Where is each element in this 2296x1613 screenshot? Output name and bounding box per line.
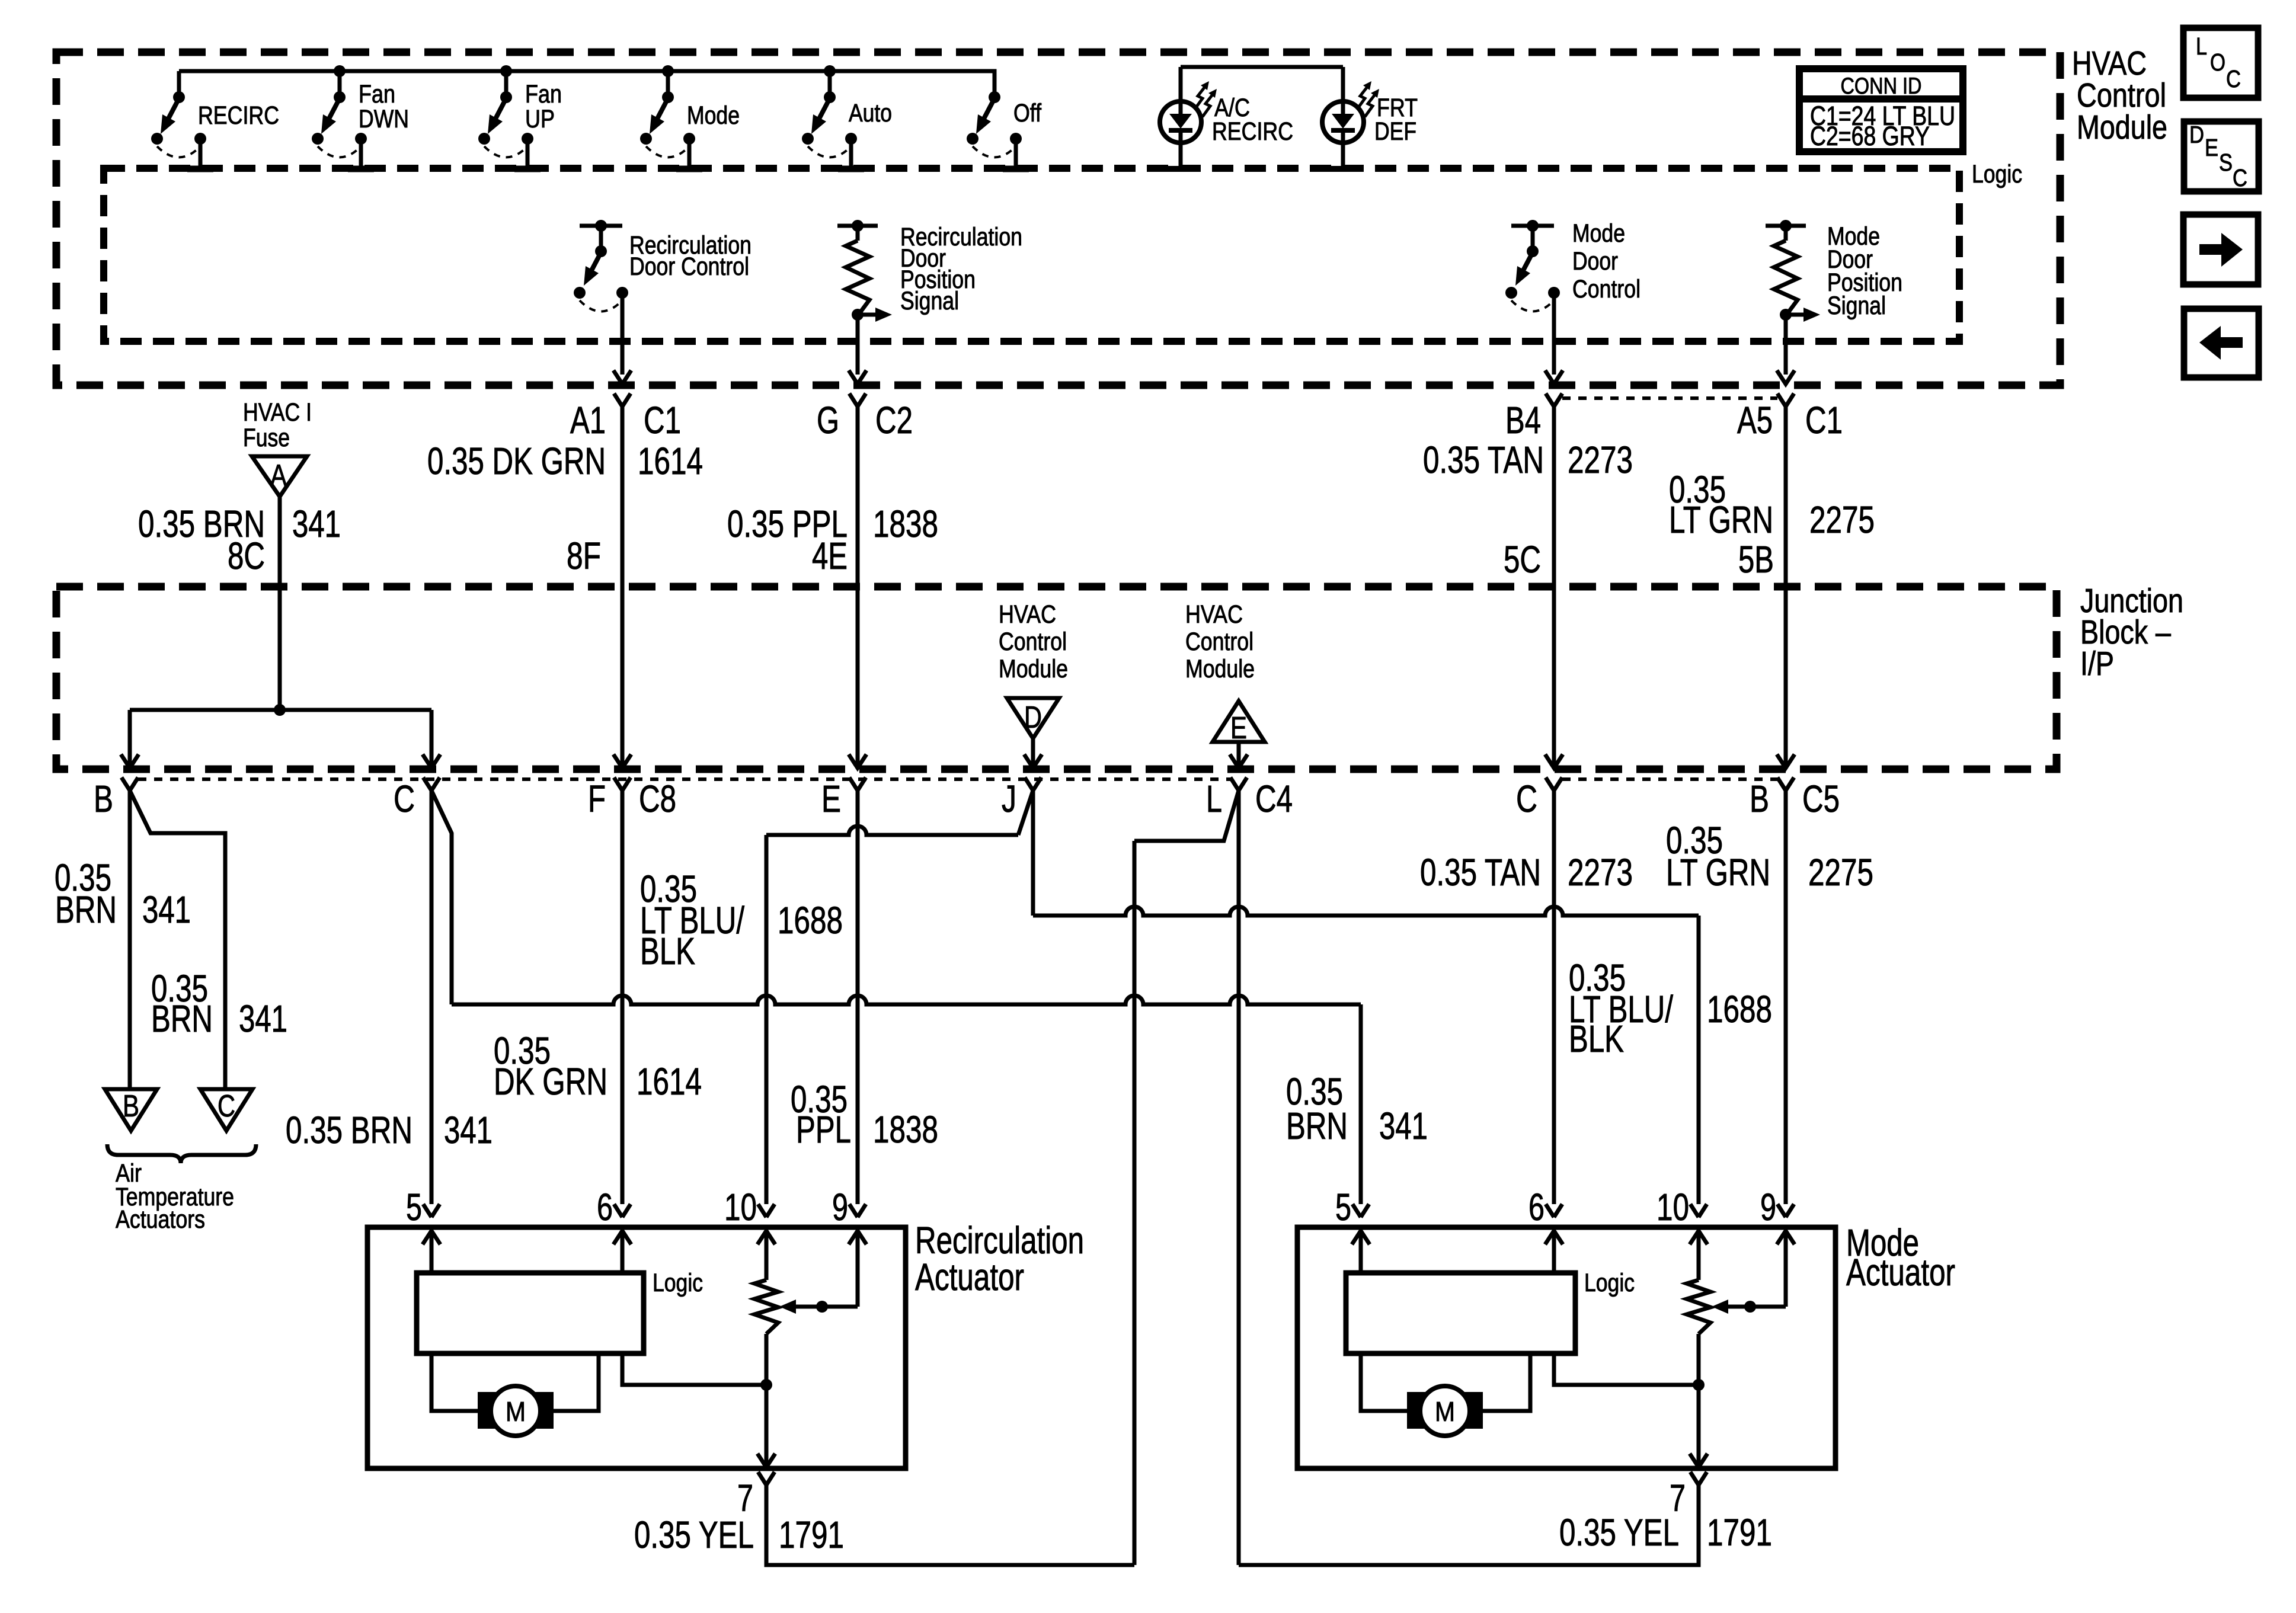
switch Mode Door Control [1505, 219, 1641, 384]
wire motor right [551, 1353, 599, 1411]
switch Fan UP [478, 71, 562, 169]
LOC box [2183, 28, 2258, 98]
svg-text:341: 341 [142, 888, 191, 931]
svg-text:DK GRN: DK GRN [494, 1060, 607, 1103]
wire pot to pin 7 [757, 1334, 775, 1467]
svg-text:1614: 1614 [637, 1060, 702, 1103]
svg-text:D: D [1024, 700, 1042, 735]
svg-text:1688: 1688 [1707, 988, 1772, 1030]
wire logic to pot junction [1554, 1353, 1699, 1385]
svg-text:E: E [2205, 134, 2218, 161]
svg-text:341: 341 [239, 997, 287, 1040]
svg-text:4E: 4E [812, 535, 848, 577]
HVAC Control Module label [2072, 44, 2167, 146]
svg-text:5: 5 [406, 1186, 422, 1228]
wire pin 6 to logic [1552, 1231, 1556, 1273]
label 0.35 BRN 341 pin5 [286, 1109, 493, 1151]
wire motor right [1480, 1353, 1530, 1411]
svg-text:I/P: I/P [2080, 645, 2114, 683]
logic box [417, 1273, 644, 1353]
wire 1688 horizontal left [766, 826, 1018, 835]
svg-text:DWN: DWN [359, 105, 409, 133]
svg-text:10: 10 [724, 1186, 757, 1228]
switch Recirculation Door Control [574, 220, 752, 384]
svg-text:1838: 1838 [873, 1108, 938, 1151]
HVAC Control Module ref D [999, 600, 1068, 768]
svg-text:BLK: BLK [640, 930, 695, 972]
svg-text:Logic: Logic [1972, 160, 2022, 188]
svg-text:C: C [2233, 164, 2247, 191]
connector B4 [1505, 393, 1562, 587]
connector E row2 [821, 777, 866, 820]
potentiometer [1687, 1280, 1710, 1334]
Mode Actuator box [1297, 1227, 1835, 1468]
svg-text:CONN ID: CONN ID [1841, 73, 1922, 99]
wire motor left [1361, 1353, 1409, 1411]
label 0.35 TAN 2273 lower [1420, 851, 1633, 894]
svg-text:2273: 2273 [1568, 851, 1633, 894]
connector dashed line B to L [138, 777, 1230, 781]
svg-text:1688: 1688 [778, 899, 843, 942]
resistor Recirculation Door Position [837, 220, 1022, 384]
svg-text:BRN: BRN [1286, 1105, 1348, 1147]
svg-text:S: S [2219, 149, 2233, 176]
wire BRN 341 horizontal to Mode pin 5 [452, 996, 1361, 1004]
svg-text:HVAC I: HVAC I [243, 398, 312, 427]
pin 7 [737, 1472, 775, 1519]
svg-text:LT GRN: LT GRN [1669, 498, 1773, 541]
connector B C5 row2 [1750, 777, 1840, 820]
wire fuse to junction block [278, 497, 282, 710]
svg-text:RECIRC: RECIRC [198, 101, 279, 130]
svg-text:C8: C8 [639, 777, 676, 820]
svg-text:1838: 1838 [873, 503, 938, 545]
connector G C2 [817, 393, 913, 587]
svg-text:0.35 TAN: 0.35 TAN [1420, 851, 1541, 894]
svg-text:1791: 1791 [779, 1513, 844, 1556]
wire down to Recirc pin 10 [765, 835, 769, 1204]
svg-text:341: 341 [444, 1109, 493, 1151]
svg-text:DEF: DEF [1374, 117, 1416, 146]
svg-text:C4: C4 [1255, 777, 1293, 820]
wire A5 to B through junction [1777, 587, 1795, 768]
Junction Block label [2080, 582, 2183, 683]
Logic dashed box [104, 168, 1959, 341]
wire pin 10 to potentiometer [765, 1231, 769, 1280]
svg-text:Fan: Fan [359, 80, 395, 108]
svg-text:L: L [2196, 33, 2207, 60]
wire A1 to F through junction [613, 587, 631, 768]
svg-text:A: A [270, 459, 287, 493]
svg-text:Control: Control [999, 628, 1067, 656]
svg-text:Door Control: Door Control [629, 252, 749, 281]
svg-text:Actuator: Actuator [1846, 1251, 1955, 1294]
svg-text:B: B [94, 777, 113, 820]
connector dashed line C to B [1562, 777, 1777, 781]
wire LED bracket [1181, 65, 1343, 69]
svg-text:10: 10 [1657, 1186, 1689, 1228]
pin 7 [1670, 1472, 1707, 1519]
svg-text:Door: Door [1572, 247, 1618, 276]
svg-text:9: 9 [832, 1186, 848, 1228]
junction Fan UP [500, 65, 512, 77]
wire to Off switch [830, 71, 994, 94]
junction Auto [824, 65, 836, 77]
LED FRT DEF [1322, 67, 1418, 169]
wire 0.35 YEL 1791 recirc [766, 1485, 1134, 1565]
fuse HVAC I [243, 398, 312, 497]
connector B row2 [94, 777, 138, 820]
svg-text:Logic: Logic [1584, 1269, 1635, 1297]
svg-text:BRN: BRN [55, 888, 117, 931]
svg-text:341: 341 [1379, 1105, 1428, 1147]
wire 1688 horizontal to Mode pin 10 [1033, 907, 1699, 916]
label 0.35 BRN 341 fuse [138, 503, 341, 577]
label 0.35 BRN 341 left2 [151, 967, 287, 1040]
connector A5 C1 [1737, 393, 1843, 587]
arrow left box [2184, 309, 2259, 377]
wire B to Mode pin 9 [1784, 791, 1788, 1204]
Junction Block I/P dashed box [56, 587, 2057, 769]
svg-text:C: C [394, 777, 415, 820]
wire down to Mode pin 10 [1697, 916, 1701, 1204]
svg-text:C1: C1 [644, 399, 681, 441]
connector A1 C1 [570, 393, 681, 587]
svg-text:O: O [2210, 49, 2225, 76]
label 0.35 PPL 1838 [727, 503, 938, 577]
svg-text:BLK: BLK [1569, 1017, 1624, 1060]
motor M [478, 1386, 554, 1436]
wire pin 9 to wiper [1712, 1231, 1786, 1314]
motor M [1407, 1386, 1483, 1436]
wire pin 6 to logic [621, 1231, 625, 1273]
svg-text:C2: C2 [875, 399, 913, 441]
svg-text:5B: 5B [1738, 538, 1774, 581]
wire 0.35 YEL 1791 mode [1239, 1485, 1699, 1565]
svg-text:HVAC: HVAC [1185, 600, 1243, 629]
svg-text:0.35 YEL: 0.35 YEL [1559, 1511, 1679, 1554]
junction Fan DWN [334, 65, 346, 77]
wire C to Mode pin 6 [1552, 791, 1556, 1204]
svg-text:Actuator: Actuator [915, 1256, 1024, 1298]
label 0.35 YEL 1791 recirc [634, 1513, 844, 1556]
DESC box [2184, 121, 2259, 191]
svg-text:8C: 8C [228, 535, 265, 577]
svg-text:C2=68 GRY: C2=68 GRY [1810, 121, 1930, 151]
label 0.35 DK GRN 1614 lower [494, 1029, 702, 1103]
arrow right box [2183, 215, 2258, 284]
svg-text:Mode: Mode [687, 101, 740, 130]
pin 5 [406, 1186, 440, 1244]
svg-text:0.35 TAN: 0.35 TAN [1423, 439, 1544, 481]
wire pin 5 to logic [430, 1231, 434, 1273]
wire J to Recirc pin 10 [1031, 791, 1035, 916]
svg-text:D: D [2189, 121, 2204, 148]
svg-text:2273: 2273 [1568, 439, 1633, 481]
triangle ref B Air Temperature [105, 1089, 157, 1131]
svg-text:Mode: Mode [1572, 219, 1625, 248]
svg-text:C5: C5 [1802, 777, 1840, 820]
potentiometer [754, 1280, 778, 1334]
resistor Mode Door Position [1766, 220, 1902, 384]
brace Air Temperature Actuators [107, 1144, 256, 1163]
svg-text:0.35 DK GRN: 0.35 DK GRN [427, 440, 606, 482]
connector C row2 [1516, 777, 1562, 820]
svg-text:C: C [2226, 65, 2241, 92]
HVAC Control Module dashed box [56, 52, 2060, 385]
svg-text:Module: Module [1185, 655, 1255, 683]
svg-text:B: B [1750, 777, 1769, 820]
switch Auto [802, 71, 892, 169]
connector L C4 row2 [1206, 777, 1293, 820]
label 0.35 BRN 341 mode pin5 [1286, 1070, 1428, 1147]
pin 10 [724, 1186, 775, 1244]
svg-text:Fuse: Fuse [243, 424, 290, 452]
LED A/C RECIRC [1160, 67, 1293, 169]
svg-text:Fan: Fan [525, 80, 562, 108]
svg-text:B: B [123, 1089, 139, 1124]
svg-text:341: 341 [292, 503, 341, 545]
pin 6 [1528, 1186, 1563, 1244]
svg-text:Actuators: Actuators [116, 1205, 205, 1234]
wire E to Recirc pin 9 [856, 791, 860, 1204]
wire diagonal to J [1018, 791, 1033, 835]
svg-text:LT GRN: LT GRN [1666, 851, 1770, 894]
wire C branch down [431, 791, 452, 1004]
switch Off [967, 71, 1042, 169]
svg-text:F: F [588, 777, 606, 820]
svg-text:5: 5 [1335, 1186, 1351, 1228]
pin 9 [1760, 1186, 1795, 1244]
CONN ID table [1799, 69, 1963, 152]
wire B branch to triangle C [130, 791, 225, 1089]
svg-text:UP: UP [525, 105, 555, 133]
svg-text:2275: 2275 [1808, 851, 1873, 894]
svg-text:E: E [821, 777, 841, 820]
svg-text:C: C [218, 1089, 235, 1124]
wire pin 10 to potentiometer [1697, 1231, 1701, 1280]
svg-text:B4: B4 [1505, 399, 1541, 441]
svg-text:A1: A1 [570, 399, 606, 441]
triangle ref C Air Temperature [200, 1089, 252, 1131]
svg-text:Logic: Logic [653, 1269, 703, 1297]
wire G to E through junction [849, 587, 866, 768]
svg-text:Module: Module [999, 655, 1068, 683]
connector dashed line B4 to A5 [1562, 396, 1777, 400]
wire fuse tee [121, 704, 440, 768]
svg-text:1614: 1614 [638, 440, 703, 482]
pin 9 [832, 1186, 866, 1244]
switch Mode [640, 71, 740, 169]
svg-text:C1: C1 [1805, 399, 1843, 441]
wire pin 9 to wiper [779, 1231, 858, 1314]
wire pin 5 to logic [1359, 1231, 1363, 1273]
svg-text:M: M [1435, 1396, 1455, 1427]
pin 10 [1657, 1186, 1707, 1244]
wire logic to pot junction [622, 1353, 766, 1385]
wire B4 to C through junction [1545, 587, 1563, 768]
label 0.35 LT BLU BLK 1688 left [640, 868, 843, 972]
label 0.35 LT GRN 2275 [1669, 468, 1875, 581]
label 0.35 LT BLU BLK 1688 right [1569, 956, 1772, 1060]
svg-text:Signal: Signal [1827, 292, 1886, 320]
pin 5 [1335, 1186, 1370, 1244]
wire F to Recirc pin 6 [621, 791, 625, 1204]
pin 6 [597, 1186, 631, 1244]
svg-text:Control: Control [1185, 628, 1253, 656]
svg-text:Signal: Signal [900, 287, 959, 315]
Air Temperature Actuators label [116, 1159, 234, 1234]
label 0.35 PPL 1838 lower [791, 1078, 938, 1151]
connector C row2 [394, 777, 440, 820]
svg-text:PPL: PPL [796, 1108, 851, 1151]
svg-text:C: C [1516, 777, 1537, 820]
connector F C8 row2 [588, 777, 676, 820]
Recirculation Actuator box [367, 1227, 906, 1468]
label 0.35 LT GRN 2275 lower [1666, 819, 1873, 894]
svg-text:Control: Control [1572, 275, 1641, 303]
svg-text:M: M [506, 1396, 526, 1427]
switch RECIRC [151, 71, 279, 169]
svg-text:Off: Off [1013, 99, 1042, 127]
svg-text:5C: 5C [1504, 538, 1541, 581]
svg-text:G: G [817, 399, 839, 441]
wire down to Mode pin 5 [1359, 1004, 1363, 1204]
svg-text:Module: Module [2077, 108, 2167, 146]
svg-text:0.35 YEL: 0.35 YEL [634, 1513, 754, 1556]
svg-text:6: 6 [1528, 1186, 1544, 1228]
svg-text:L: L [1206, 777, 1222, 820]
svg-text:E: E [1230, 711, 1247, 745]
label 0.35 BRN 341 left1 [55, 856, 191, 931]
connector J row2 [1002, 777, 1041, 820]
svg-text:8F: 8F [567, 535, 601, 577]
svg-text:BRN: BRN [151, 997, 213, 1040]
wire motor left [431, 1353, 480, 1411]
svg-text:HVAC: HVAC [999, 600, 1056, 629]
svg-text:9: 9 [1760, 1186, 1776, 1228]
HVAC Control Module ref E [1185, 600, 1265, 768]
svg-text:Auto: Auto [849, 99, 892, 127]
wire B to Air Temp triangle B [128, 791, 132, 1089]
svg-text:1791: 1791 [1707, 1511, 1772, 1554]
label 0.35 DK GRN 1614 [427, 440, 703, 577]
svg-text:J: J [1002, 777, 1016, 820]
svg-text:A5: A5 [1737, 399, 1773, 441]
svg-text:6: 6 [597, 1186, 613, 1228]
wire L to yellow wires [1134, 791, 1239, 1565]
junction Mode [662, 65, 674, 77]
label 0.35 TAN 2273 [1423, 439, 1633, 581]
switch Fan DWN [312, 71, 409, 169]
wire top bus [179, 69, 994, 73]
wire pot to pin 7 [1690, 1334, 1707, 1467]
svg-text:0.35 BRN: 0.35 BRN [286, 1109, 412, 1151]
svg-text:2275: 2275 [1809, 498, 1875, 541]
wire C to Recirc pin 5 [430, 791, 434, 1204]
svg-text:RECIRC: RECIRC [1212, 117, 1293, 146]
label 0.35 YEL 1791 mode [1559, 1511, 1772, 1554]
logic box [1346, 1273, 1575, 1353]
